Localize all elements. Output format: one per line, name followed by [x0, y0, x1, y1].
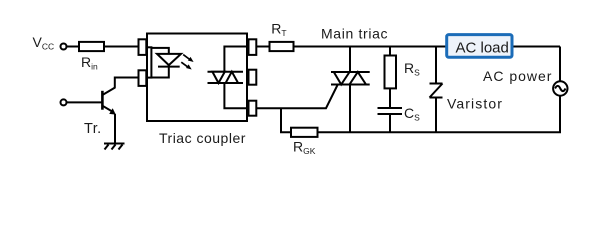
- svg-text:AC power: AC power: [483, 68, 552, 84]
- svg-text:Tr.: Tr.: [84, 121, 102, 137]
- svg-text:AC load: AC load: [456, 40, 509, 57]
- svg-text:Triac coupler: Triac coupler: [159, 130, 246, 146]
- svg-text:Varistor: Varistor: [447, 95, 503, 111]
- svg-text:Main triac: Main triac: [321, 26, 388, 42]
